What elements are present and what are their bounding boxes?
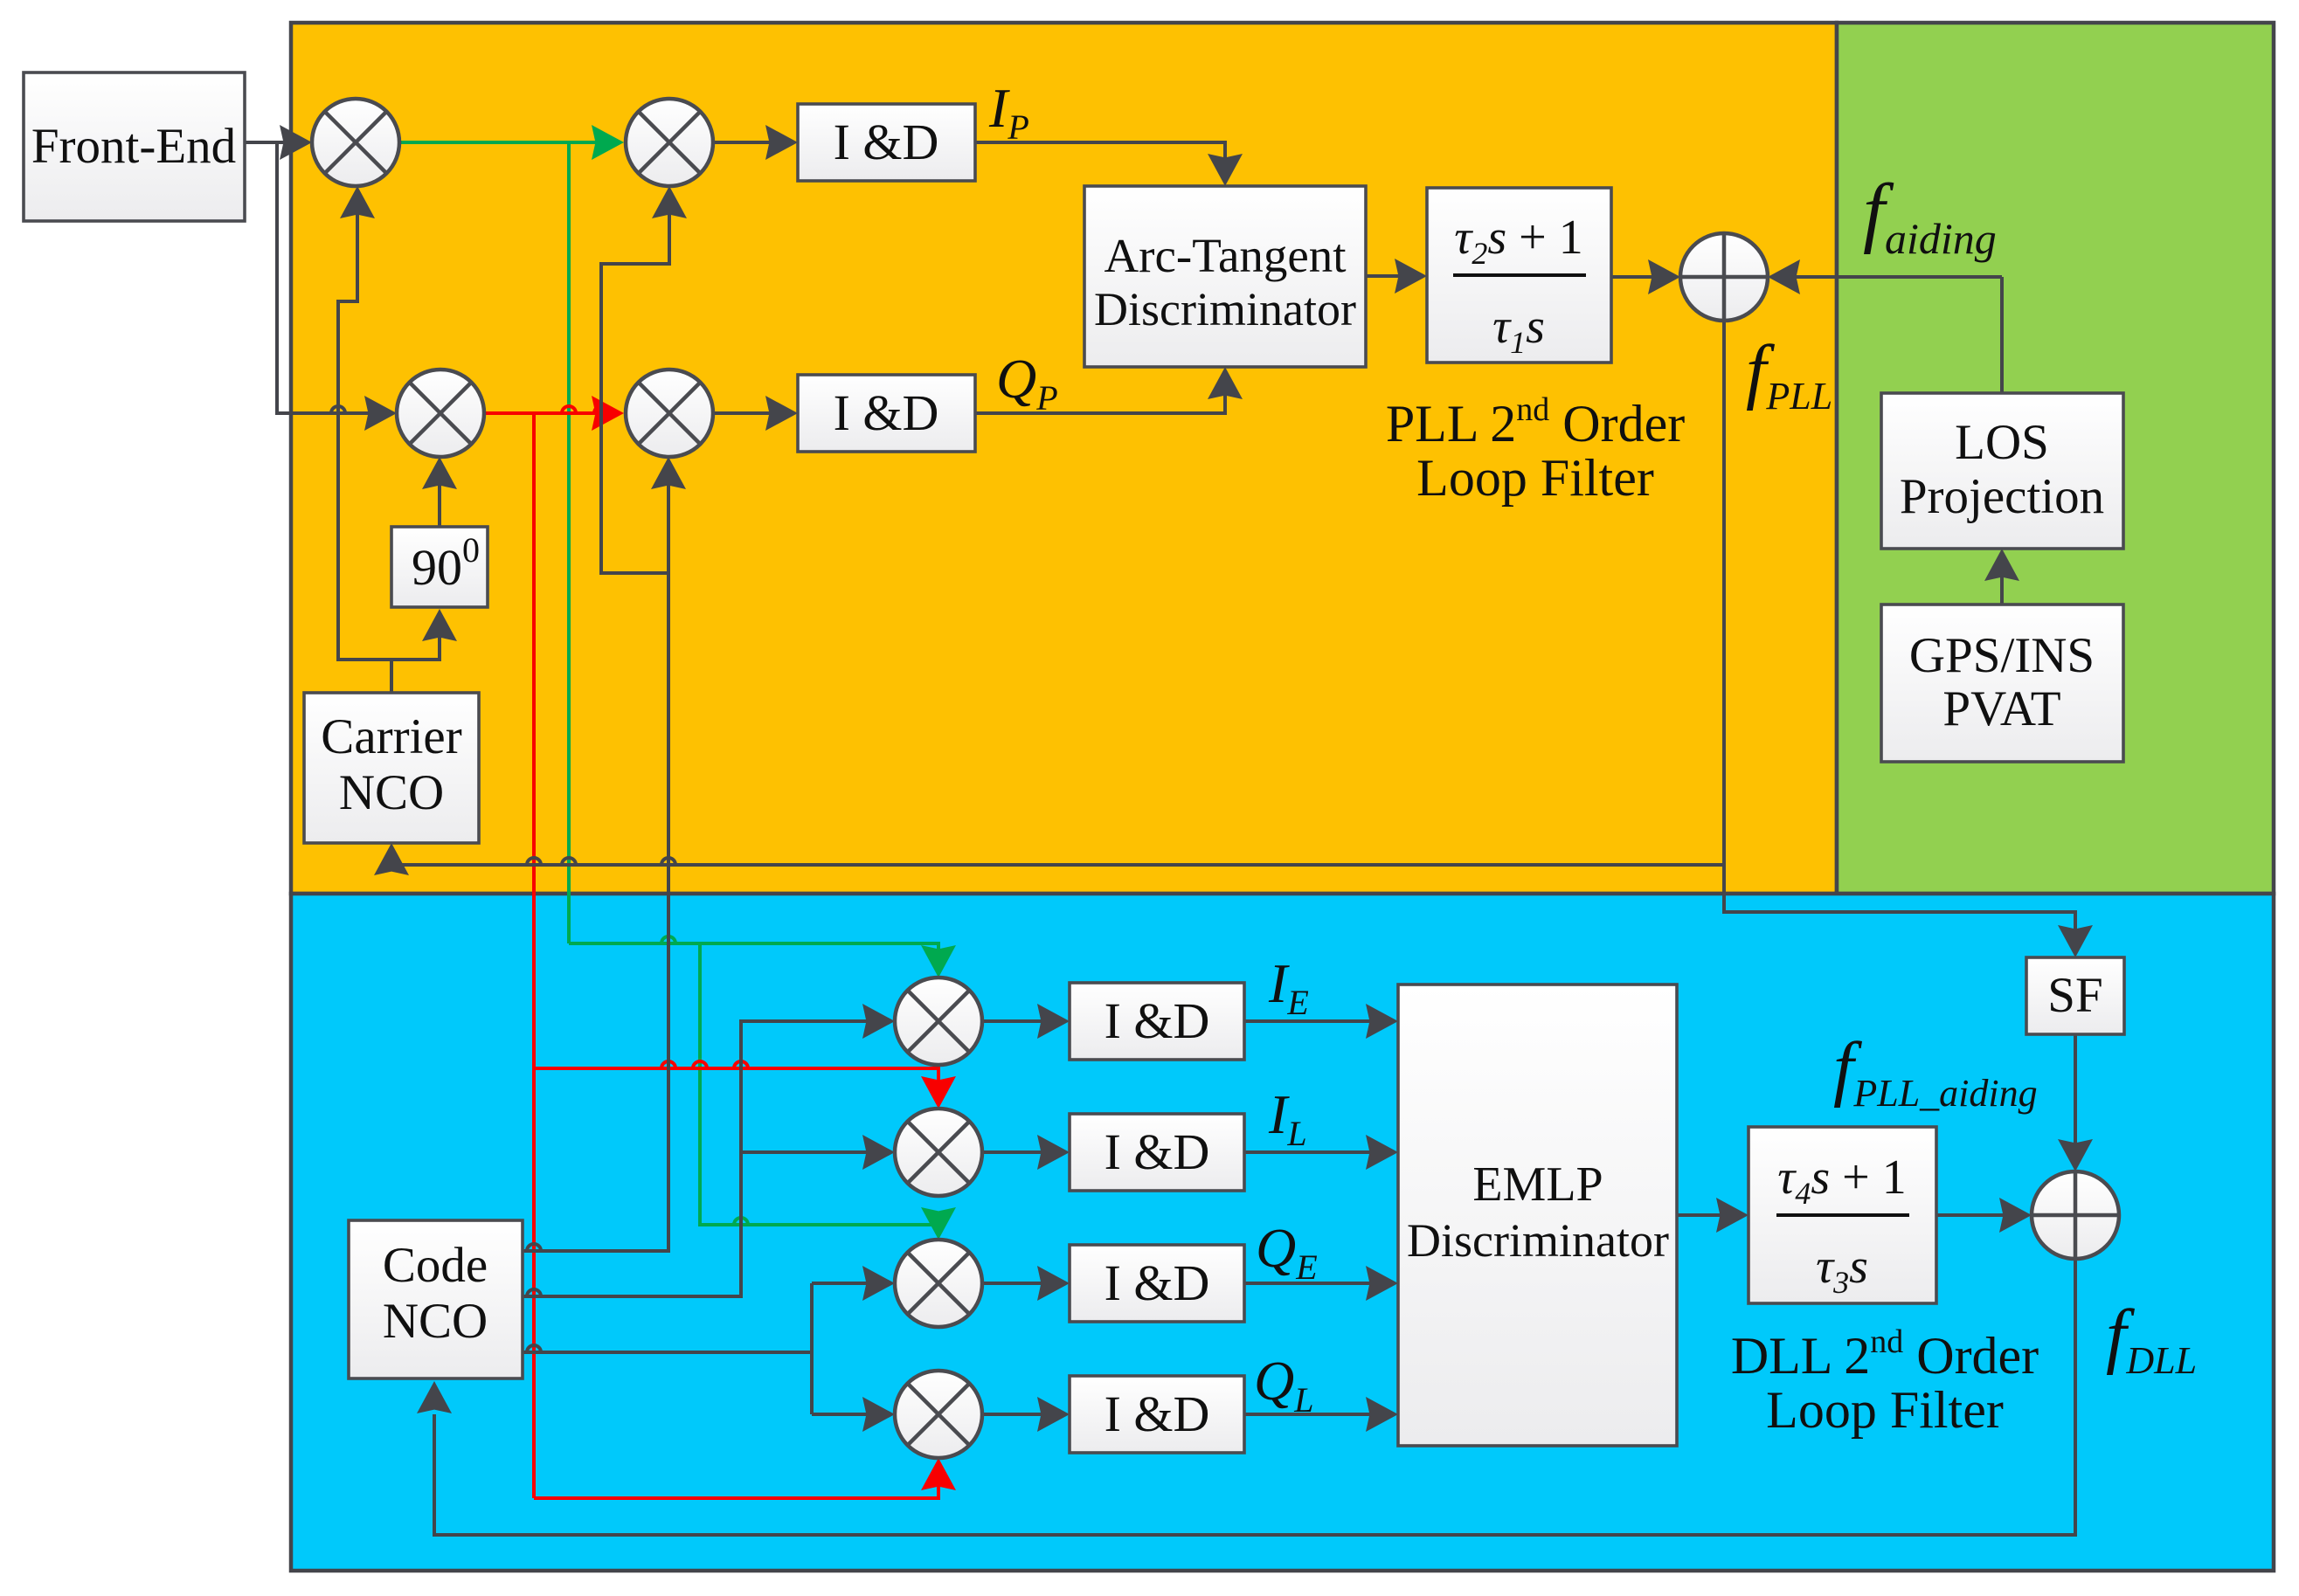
wire Arc-Tangent to PLL loop filter (1366, 274, 1422, 278)
wire 90-degree shifter to M3 (438, 461, 441, 527)
svg-text:Projection: Projection (1900, 469, 2104, 524)
svg-text:NCO: NCO (339, 765, 444, 820)
svg-text:EMLP: EMLP (1472, 1157, 1603, 1212)
svg-text:Code: Code (383, 1238, 488, 1293)
wire M5 to I&D (982, 1019, 1064, 1023)
svg-text:LOS: LOS (1955, 415, 2049, 470)
svg-text:Carrier: Carrier (321, 709, 461, 764)
region: PLL carrier tracking (orange) (291, 23, 1837, 894)
wire DLL loop filter to summer S2 (1936, 1213, 2026, 1217)
summer S2 (DLL) (2032, 1171, 2119, 1259)
wire carrier in-phase up to M1 (338, 190, 357, 661)
wire SF to summer S2 (2074, 1034, 2077, 1166)
multiplier M5 (IE) (895, 978, 982, 1065)
region: INS aiding (green) (1837, 23, 2274, 894)
wire M6 to I&D (982, 1150, 1064, 1154)
wire green branch to M7 (700, 943, 938, 1235)
wire green M1 output to M2 and down (398, 141, 612, 144)
region: DLL code tracking (cyan) (291, 894, 2274, 1571)
wire I&D row 2 to EMLP (1244, 1150, 1393, 1154)
wire EMLP to DLL loop filter (1677, 1213, 1743, 1217)
svg-text:Loop Filter: Loop Filter (1416, 449, 1654, 507)
block Carrier NCO (304, 693, 479, 843)
block 90-degree phase shift (391, 527, 488, 607)
multiplier M4 (626, 370, 713, 457)
wire Front-End branch down to multiplier M3 (277, 144, 391, 413)
multiplier M3 (397, 370, 484, 457)
wire f_aiding to summer S1 (1773, 275, 2002, 279)
wire late code split (810, 1283, 814, 1414)
block I&D Ip (798, 104, 975, 181)
svg-text:Loop Filter: Loop Filter (1766, 1381, 2004, 1439)
wire red M3 output to M4 and down (482, 411, 612, 415)
wire f_PLL down from S1 (1724, 321, 2075, 952)
wire I&D row 3 to EMLP (1244, 1282, 1393, 1285)
wire Code NCO punctual code up (523, 573, 668, 1251)
wire early code branch to M6 (741, 1150, 890, 1154)
wire carrier NCO feedback (391, 848, 1724, 865)
wire PLL loop filter to summer S1 (1611, 275, 1675, 279)
svg-text:Discriminator: Discriminator (1094, 283, 1356, 335)
block I&D IL (1070, 1114, 1244, 1191)
wire Ip to Arc-Tangent (975, 142, 1225, 181)
wire M8 to I&D (982, 1413, 1064, 1416)
wire M7 to I&D (982, 1282, 1064, 1285)
block I&D QL (1070, 1376, 1244, 1453)
svg-text:SF: SF (2047, 968, 2102, 1023)
wire Carrier NCO output split (390, 660, 393, 693)
wire red horizontal to M6 (534, 1068, 938, 1104)
wire f_DLL feedback to Code NCO (434, 1259, 2075, 1535)
block EMLP Discriminator (1398, 985, 1677, 1446)
multiplier M7 (QE) (895, 1240, 982, 1327)
wire M2 to I&D (Ip) (713, 141, 793, 144)
wire Qp to Arc-Tangent (975, 372, 1225, 413)
multiplier M2 (626, 99, 713, 186)
block I&D IE (1070, 983, 1244, 1060)
wire Carrier NCO to 90-degree shifter (438, 612, 441, 661)
svg-text:Front-End: Front-End (31, 119, 236, 174)
wire Front-End to multiplier M1 (245, 141, 308, 144)
svg-text:I &D: I &D (834, 114, 939, 170)
block GPS/INS PVAT (1881, 605, 2123, 762)
multiplier M1 (312, 99, 399, 186)
svg-text:GPS/INS: GPS/INS (1909, 628, 2095, 683)
block Arc-Tangent Discriminator (1084, 186, 1366, 367)
wire punctual code detour to M2 (601, 190, 669, 573)
block Front-End (24, 73, 245, 221)
block PLL loop filter (tau2 s + 1)/(tau1 s) (1427, 188, 1611, 363)
svg-text:NCO: NCO (383, 1294, 488, 1349)
svg-text:Arc-Tangent: Arc-Tangent (1104, 229, 1346, 282)
block SF scale factor (2026, 957, 2124, 1034)
svg-text:I &D: I &D (834, 384, 939, 441)
wire I&D row 4 to EMLP (1244, 1413, 1393, 1416)
summer S1 (PLL) (1680, 233, 1768, 321)
block Code NCO (349, 1220, 523, 1378)
wire red bottom to M8 (534, 1462, 938, 1498)
wire M4 to I&D (Qp) (713, 411, 793, 415)
wire I&D row 1 to EMLP (1244, 1019, 1393, 1023)
svg-text:I &D: I &D (1104, 992, 1210, 1049)
wire punctual code to M4 (667, 461, 670, 573)
block I&D QE (1070, 1245, 1244, 1322)
block I&D Qp (798, 375, 975, 452)
wire Code NCO early code (523, 1021, 890, 1296)
svg-text:I &D: I &D (1104, 1254, 1210, 1311)
svg-text:PVAT: PVAT (1942, 681, 2060, 736)
wire Code NCO late code (523, 1351, 812, 1354)
block LOS Projection (1881, 393, 2123, 549)
multiplier M6 (IL) (895, 1109, 982, 1196)
svg-text:I &D: I &D (1104, 1123, 1210, 1180)
wire green horizontal to M5 (569, 943, 938, 973)
multiplier M8 (QL) (895, 1371, 982, 1458)
block DLL loop filter (tau4 s + 1)/(tau3 s) (1748, 1127, 1936, 1303)
svg-text:Discriminator: Discriminator (1407, 1214, 1669, 1267)
svg-text:I &D: I &D (1104, 1385, 1210, 1442)
wire GPS/INS PVAT to LOS Projection (2000, 554, 2004, 605)
